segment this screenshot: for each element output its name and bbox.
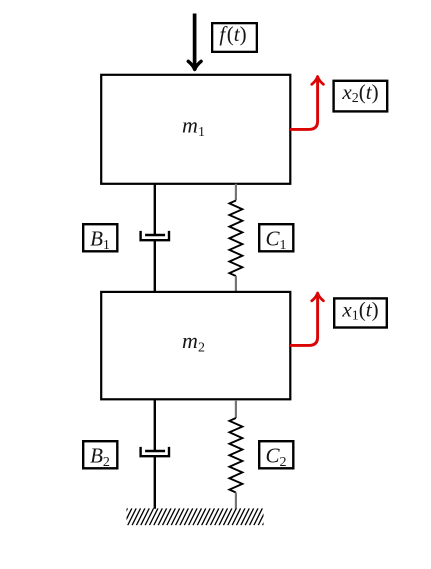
displacement arrow x2(t) [290, 77, 323, 130]
damper B2: piston plate [145, 450, 165, 452]
svg-text:x1(t): x1(t) [341, 298, 378, 324]
label f(t) [212, 22, 257, 52]
svg-text:x2(t): x2(t) [341, 80, 378, 106]
label x2(t) [334, 80, 388, 111]
spring C1: lead to m2 [235, 276, 237, 292]
mass m1 [101, 75, 290, 184]
spring C2: zigzag [229, 418, 242, 493]
ground hatching [119, 508, 271, 525]
spring C1: zigzag [229, 201, 242, 277]
label x1(t) [334, 298, 387, 328]
svg-text:f(t): f(t) [219, 22, 246, 46]
force arrow f(t) [188, 14, 201, 70]
damper B1: piston plate [145, 234, 165, 236]
damper B1: cup [141, 231, 169, 240]
damper B1: rod from m1 [154, 184, 156, 235]
label B2 [83, 441, 117, 470]
spring C2: lead from m2 [235, 400, 237, 418]
label B1 [83, 224, 117, 253]
mass m2 [101, 292, 290, 399]
spring C2: lead to ground [235, 493, 237, 509]
displacement arrow x1(t) [290, 293, 323, 345]
damper B2: rod from m2 [154, 400, 156, 451]
damper B2: cup [141, 447, 169, 456]
damper B2: rod to ground [154, 456, 156, 509]
damper B1: rod to m2 [154, 240, 156, 292]
spring C1: lead from m1 [235, 184, 237, 201]
label C2 [259, 441, 293, 470]
label C1 [259, 224, 293, 253]
